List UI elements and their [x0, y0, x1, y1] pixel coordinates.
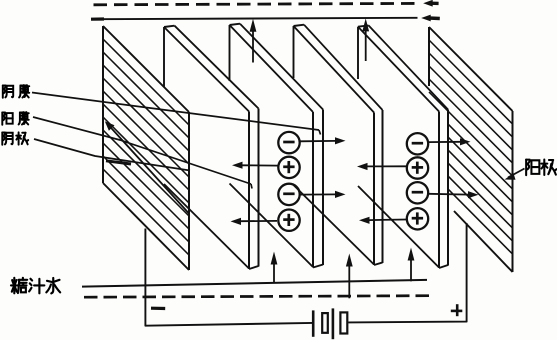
bottom dashed line [84, 296, 429, 298]
anion arrow right col1-2 [300, 193, 336, 195]
battery short plate 1 [322, 313, 328, 333]
top solid flow line [91, 17, 104, 20]
ion circle minus col1-1 [278, 132, 299, 153]
cation arrow left col2-1 [367, 165, 407, 167]
upward flow arrow top-1 [252, 29, 254, 63]
top dashed line left arrow [430, 2, 439, 6]
membrane 4 (anion membrane) [357, 27, 359, 79]
leader line from label yin-ji (cathode) [34, 139, 190, 171]
ion circle plus col2-4 [407, 208, 428, 229]
ion circle minus col2-3 [407, 182, 428, 203]
upward flow arrow bottom-3 [410, 260, 412, 281]
ion circle minus col2-1 [407, 133, 428, 154]
battery long plate 1 [312, 310, 315, 336]
cathode plate outline [102, 26, 104, 183]
upward flow arrow top-2 [365, 28, 367, 61]
membrane 1 (cation membrane) [163, 27, 165, 87]
membrane 2 (anion membrane) [229, 25, 231, 81]
label yin-mo (anion membrane) text [3, 86, 13, 98]
label yang-mo (cation membrane) text [2, 113, 12, 125]
cation arrow left col1-1 [242, 164, 278, 166]
label yin-ji (cathode) text [2, 133, 12, 145]
leader line from label yang-mo to membrane 1 [33, 117, 251, 184]
bottom solid juice line [82, 280, 427, 287]
upward flow arrow bottom-2 [348, 265, 350, 298]
anion arrow right col2-1 [429, 141, 462, 143]
cation arrow left col1-2 [241, 220, 277, 222]
cation arrow left col2-2 [369, 219, 407, 222]
battery long plate 2 [332, 308, 335, 339]
top solid line left arrow [429, 16, 440, 20]
cathode plate hatching [103, 39, 189, 125]
top dashed brine flow line [94, 3, 421, 4]
leader line from label yang-ji (anode) [508, 169, 525, 178]
upward flow arrow bottom-1 [273, 263, 275, 282]
ion circle plus col1-2 [278, 157, 299, 178]
label yang-ji (anode) text [526, 160, 539, 176]
leader line from label yin-mo to membrane 2 [32, 93, 319, 131]
anode plate outline [428, 27, 430, 86]
label tang-zhi-shui (sugar juice water) text [11, 278, 27, 294]
ion circle plus col2-2 [407, 157, 428, 178]
ion circle plus col1-4 [278, 210, 299, 231]
anion arrow right col1-1 [300, 140, 336, 142]
anion arrow right col2-2 [429, 193, 470, 196]
ion circle minus col1-3 [278, 184, 299, 205]
cathode pointer arrow (45deg into plate) [108, 125, 189, 214]
anode lead wire [348, 223, 466, 322]
cathode lead wire [145, 229, 312, 326]
membrane 3 (cation membrane) [293, 26, 295, 78]
battery short plate 2 [340, 312, 347, 333]
minus terminal sign [151, 307, 165, 310]
anode plate hatching [429, 40, 513, 124]
plus terminal sign [451, 310, 463, 313]
